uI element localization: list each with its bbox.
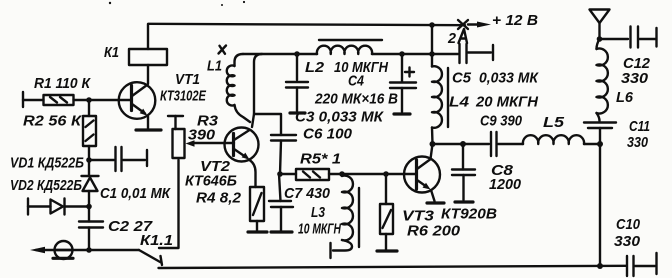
node antenna (597, 36, 603, 42)
svg-text:L4: L4 (449, 94, 470, 111)
speck (243, 1, 245, 3)
svg-text:С5: С5 (452, 70, 472, 87)
transistor VT1 (119, 82, 156, 129)
resistor R4 (250, 187, 264, 231)
svg-text:L2: L2 (305, 59, 325, 76)
node L3 (339, 171, 345, 177)
wire rail to relay K1 (147, 24, 149, 49)
svg-text:С10: С10 (616, 216, 641, 233)
resistor R5 (280, 169, 416, 180)
capacitor C5 (460, 44, 494, 63)
svg-text:С3 0,033 МК: С3 0,033 МК (295, 109, 385, 126)
wire top rail (149, 24, 466, 25)
wire relay to VT1 collector (147, 65, 149, 84)
node +12V vertical top (429, 22, 435, 28)
capacitor C11 (584, 123, 616, 267)
microphone symbol (53, 241, 73, 259)
svg-text:С9 390: С9 390 (480, 113, 523, 130)
wire +12V riser (431, 25, 433, 67)
wire collector rail y144 (433, 143, 490, 145)
wire mid rail y54 (243, 53, 317, 55)
wire K1.1 fixed contact from R3 (159, 160, 179, 248)
svg-text:VD1 КД522Б: VD1 КД522Б (10, 155, 84, 172)
node VD2/C2 (86, 204, 92, 210)
wire output left with arrow (36, 249, 139, 251)
svg-text:К1.1: К1.1 (140, 232, 173, 249)
node R5/C6/C7 (277, 171, 283, 177)
ground C3 (290, 111, 305, 114)
capacitor C1 (89, 147, 147, 171)
capacitor C7 (269, 174, 293, 231)
svg-text:L3: L3 (311, 204, 326, 221)
inductor L6 (597, 39, 608, 121)
svg-text:390: 390 (188, 127, 216, 144)
node R1/R2 junction (86, 97, 92, 103)
node bottom rail / C11 line (597, 263, 603, 269)
node C8 (460, 141, 466, 147)
capacitor C8 (452, 144, 475, 200)
svg-text:С6 100: С6 100 (303, 126, 353, 143)
resistor R6 (380, 174, 393, 250)
wire VT2 collector riser (252, 54, 262, 127)
node C3 junction (294, 51, 300, 57)
inductor L3 (331, 176, 360, 258)
svg-text:К1: К1 (104, 44, 119, 61)
svg-text:R2 56 К: R2 56 К (23, 113, 83, 130)
svg-text:+ 12 В: + 12 В (492, 12, 538, 29)
ground R6 (377, 249, 397, 252)
resistor R3 trimmer (168, 116, 234, 158)
diode VD2 (28, 199, 89, 215)
capacitor C2 (79, 207, 103, 251)
svg-text:L1: L1 (207, 58, 222, 75)
capacitor C12 (601, 27, 657, 48)
svg-text:1200: 1200 (489, 176, 522, 193)
ground VT1 emitter (136, 128, 161, 131)
node +12V vertical mid (429, 51, 435, 57)
capacitor C9 (491, 132, 523, 156)
svg-text:L5: L5 (543, 114, 565, 131)
svg-text:КТ920В: КТ920В (441, 206, 497, 223)
svg-text:220 МК×16 В: 220 МК×16 В (314, 91, 398, 108)
svg-text:R1 110 К: R1 110 К (34, 75, 92, 92)
capacitor C4 electrolytic (390, 54, 416, 112)
letter A fuse rating (459, 29, 468, 43)
capacitor C3 (286, 54, 308, 111)
inductor L1 (227, 54, 250, 122)
transistor VT2 (225, 128, 259, 188)
resistor R1 (23, 92, 89, 107)
node VD1/C1 (86, 157, 92, 163)
antenna (590, 10, 610, 40)
node L5/C11 (597, 141, 603, 147)
svg-text:330: 330 (621, 70, 649, 87)
svg-text:VT3: VT3 (402, 208, 435, 225)
capacitor C6 (254, 114, 296, 174)
wire L5 to C11 line (584, 143, 600, 145)
node C2/rail (86, 247, 92, 253)
svg-text:330: 330 (614, 233, 641, 250)
svg-text:VD2 КД522Б: VD2 КД522Б (10, 177, 82, 194)
wire VT1 base (89, 99, 131, 101)
node C4 junction (399, 51, 405, 57)
svg-text:2: 2 (447, 30, 457, 47)
svg-text:R6 200: R6 200 (407, 223, 461, 240)
resistor R2 (83, 100, 96, 160)
svg-text:КТ3102Е: КТ3102Е (160, 88, 207, 105)
wire bottom rail (159, 266, 627, 268)
shield bar above L2 (319, 39, 382, 41)
svg-text:R5* 1: R5* 1 (300, 151, 341, 168)
svg-text:С1 0,01 МК: С1 0,01 МК (100, 185, 172, 202)
speck (109, 2, 111, 4)
svg-text:С4: С4 (348, 73, 365, 90)
ground C4 (394, 112, 410, 115)
speck (221, 4, 223, 6)
ground VT3 emitter (427, 201, 444, 204)
x mark above L1 (219, 46, 227, 54)
svg-text:КТ646Б: КТ646Б (185, 173, 237, 190)
ground R4 (248, 230, 267, 233)
svg-text:R4 8,2: R4 8,2 (196, 190, 242, 207)
arrow +12V (468, 23, 480, 25)
switch K1.1 (139, 250, 161, 263)
svg-text:20 МКГН: 20 МКГН (475, 94, 539, 111)
inductor L4 (432, 66, 448, 144)
relay K1 (129, 49, 167, 65)
inductor L2 (317, 46, 372, 54)
ground C7 (271, 230, 292, 233)
inductor L5 (523, 135, 584, 144)
svg-text:L6: L6 (616, 89, 634, 106)
diode VD1 (82, 160, 99, 206)
svg-text:С11: С11 (629, 118, 650, 135)
transistor VT3 (404, 144, 440, 201)
svg-text:0,033 МК: 0,033 МК (479, 70, 540, 87)
svg-text:10 МКГН: 10 МКГН (298, 221, 342, 238)
ground C8 (455, 200, 473, 203)
svg-text:С7 430: С7 430 (284, 185, 331, 202)
capacitor C10 (627, 253, 657, 276)
node VT3 collector (430, 141, 436, 147)
fuse X mark (458, 20, 468, 29)
svg-text:330: 330 (627, 134, 649, 151)
svg-text:VT1: VT1 (175, 71, 200, 88)
node R6/VT3 base (383, 171, 389, 177)
